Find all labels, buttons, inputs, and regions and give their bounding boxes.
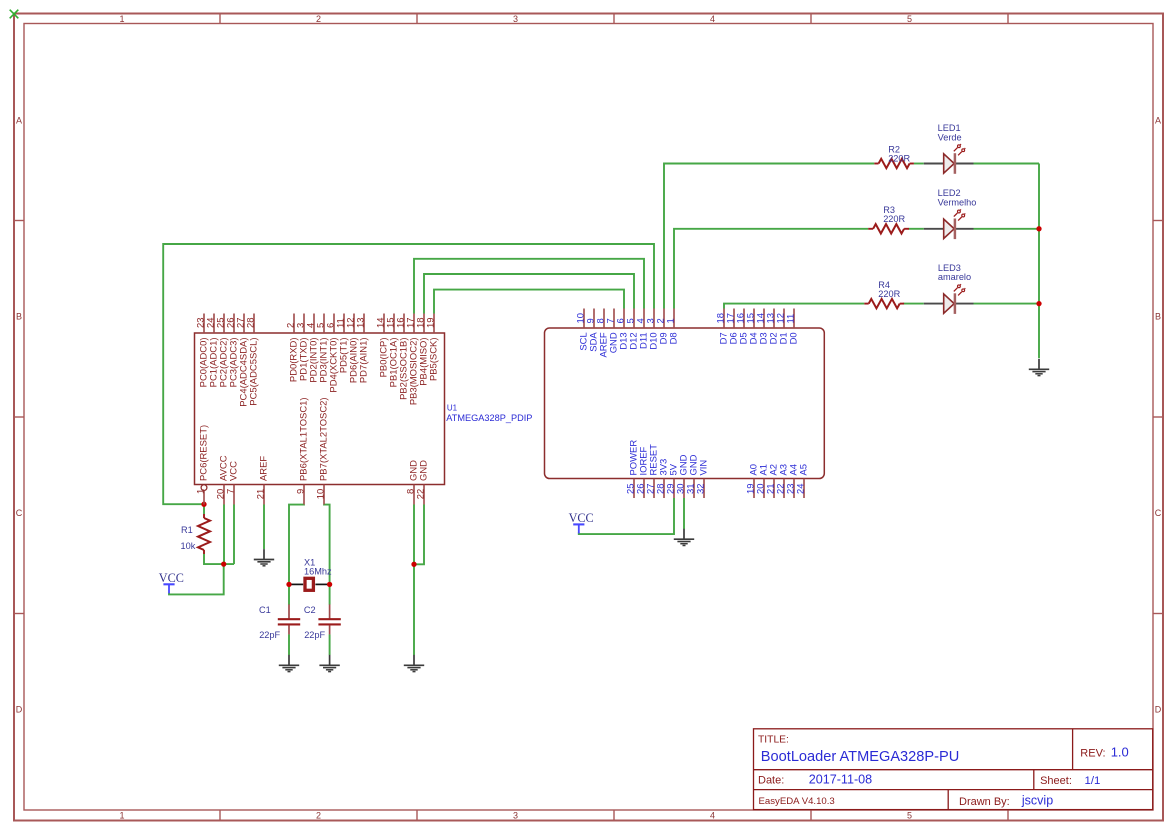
svg-text:11: 11 (786, 314, 797, 324)
svg-text:D: D (1155, 705, 1162, 715)
svg-text:220R: 220R (878, 289, 900, 299)
svg-text:32: 32 (696, 484, 707, 495)
svg-text:220R: 220R (883, 214, 905, 224)
svg-text:1: 1 (196, 489, 207, 494)
svg-text:A: A (1155, 116, 1161, 126)
svg-text:AREF: AREF (259, 456, 270, 481)
svg-text:BootLoader ATMEGA328P-PU: BootLoader ATMEGA328P-PU (761, 749, 959, 765)
svg-text:16Mhz: 16Mhz (304, 567, 332, 577)
svg-text:4: 4 (710, 14, 715, 24)
svg-text:B: B (1155, 312, 1161, 322)
svg-text:4: 4 (710, 810, 715, 820)
svg-text:D0: D0 (789, 332, 800, 344)
svg-text:22: 22 (416, 489, 427, 500)
svg-text:21: 21 (256, 489, 267, 500)
svg-text:D: D (16, 705, 23, 715)
svg-text:C: C (16, 508, 23, 518)
svg-text:Date:: Date: (758, 775, 784, 787)
svg-text:19: 19 (426, 318, 437, 329)
svg-text:amarelo: amarelo (938, 272, 971, 282)
svg-text:PC5(ADC5SCL): PC5(ADC5SCL) (249, 338, 260, 406)
svg-text:B: B (16, 312, 22, 322)
svg-text:1: 1 (119, 14, 124, 24)
svg-text:22pF: 22pF (304, 630, 325, 640)
svg-text:5: 5 (907, 14, 912, 24)
svg-text:PD7(AIN1): PD7(AIN1) (359, 338, 370, 384)
svg-text:A: A (16, 116, 22, 126)
svg-text:ATMEGA328P_PDIP: ATMEGA328P_PDIP (446, 413, 532, 423)
svg-text:PB7(XTAL2TOSC2): PB7(XTAL2TOSC2) (319, 397, 330, 481)
svg-text:VCC: VCC (159, 571, 184, 585)
svg-text:C1: C1 (259, 605, 271, 615)
svg-text:C: C (1155, 508, 1162, 518)
svg-text:U1: U1 (447, 404, 458, 413)
svg-text:7: 7 (226, 489, 237, 494)
svg-text:D8: D8 (669, 332, 680, 344)
svg-text:PB6(XTAL1TOSC1): PB6(XTAL1TOSC1) (299, 397, 310, 481)
svg-text:VIN: VIN (699, 460, 710, 476)
svg-text:Verde: Verde (938, 133, 962, 143)
svg-text:2: 2 (316, 810, 321, 820)
svg-text:220R: 220R (888, 153, 910, 163)
svg-text:5: 5 (907, 810, 912, 820)
svg-text:PB5(SCK): PB5(SCK) (429, 338, 440, 382)
svg-text:10k: 10k (181, 541, 196, 551)
svg-text:22pF: 22pF (259, 630, 280, 640)
svg-text:Sheet:: Sheet: (1040, 775, 1072, 787)
svg-text:3: 3 (513, 810, 518, 820)
svg-text:LED1: LED1 (938, 123, 961, 133)
svg-text:TITLE:: TITLE: (758, 734, 789, 745)
svg-text:1/1: 1/1 (1085, 775, 1101, 787)
svg-text:jscvip: jscvip (1021, 794, 1053, 808)
svg-text:VCC: VCC (569, 511, 594, 525)
svg-text:9: 9 (296, 489, 307, 494)
svg-text:1: 1 (666, 318, 677, 323)
svg-text:REV:: REV: (1080, 748, 1105, 760)
svg-text:1.0: 1.0 (1111, 745, 1129, 760)
svg-text:10: 10 (316, 489, 327, 500)
svg-text:EasyEDA V4.10.3: EasyEDA V4.10.3 (759, 796, 835, 807)
svg-text:Vermelho: Vermelho (938, 197, 977, 207)
svg-text:13: 13 (356, 318, 367, 329)
svg-text:24: 24 (796, 484, 807, 495)
svg-text:2: 2 (316, 14, 321, 24)
svg-text:Drawn By:: Drawn By: (959, 796, 1010, 808)
svg-text:C2: C2 (304, 605, 316, 615)
svg-text:PC6(RESET): PC6(RESET) (199, 425, 210, 481)
svg-text:GND: GND (419, 460, 430, 481)
svg-text:R1: R1 (181, 525, 193, 535)
svg-text:3: 3 (513, 14, 518, 24)
svg-text:28: 28 (246, 318, 257, 329)
svg-text:2017-11-08: 2017-11-08 (809, 773, 873, 787)
svg-text:VCC: VCC (229, 461, 240, 481)
svg-text:A5: A5 (799, 464, 810, 476)
svg-text:1: 1 (119, 810, 124, 820)
